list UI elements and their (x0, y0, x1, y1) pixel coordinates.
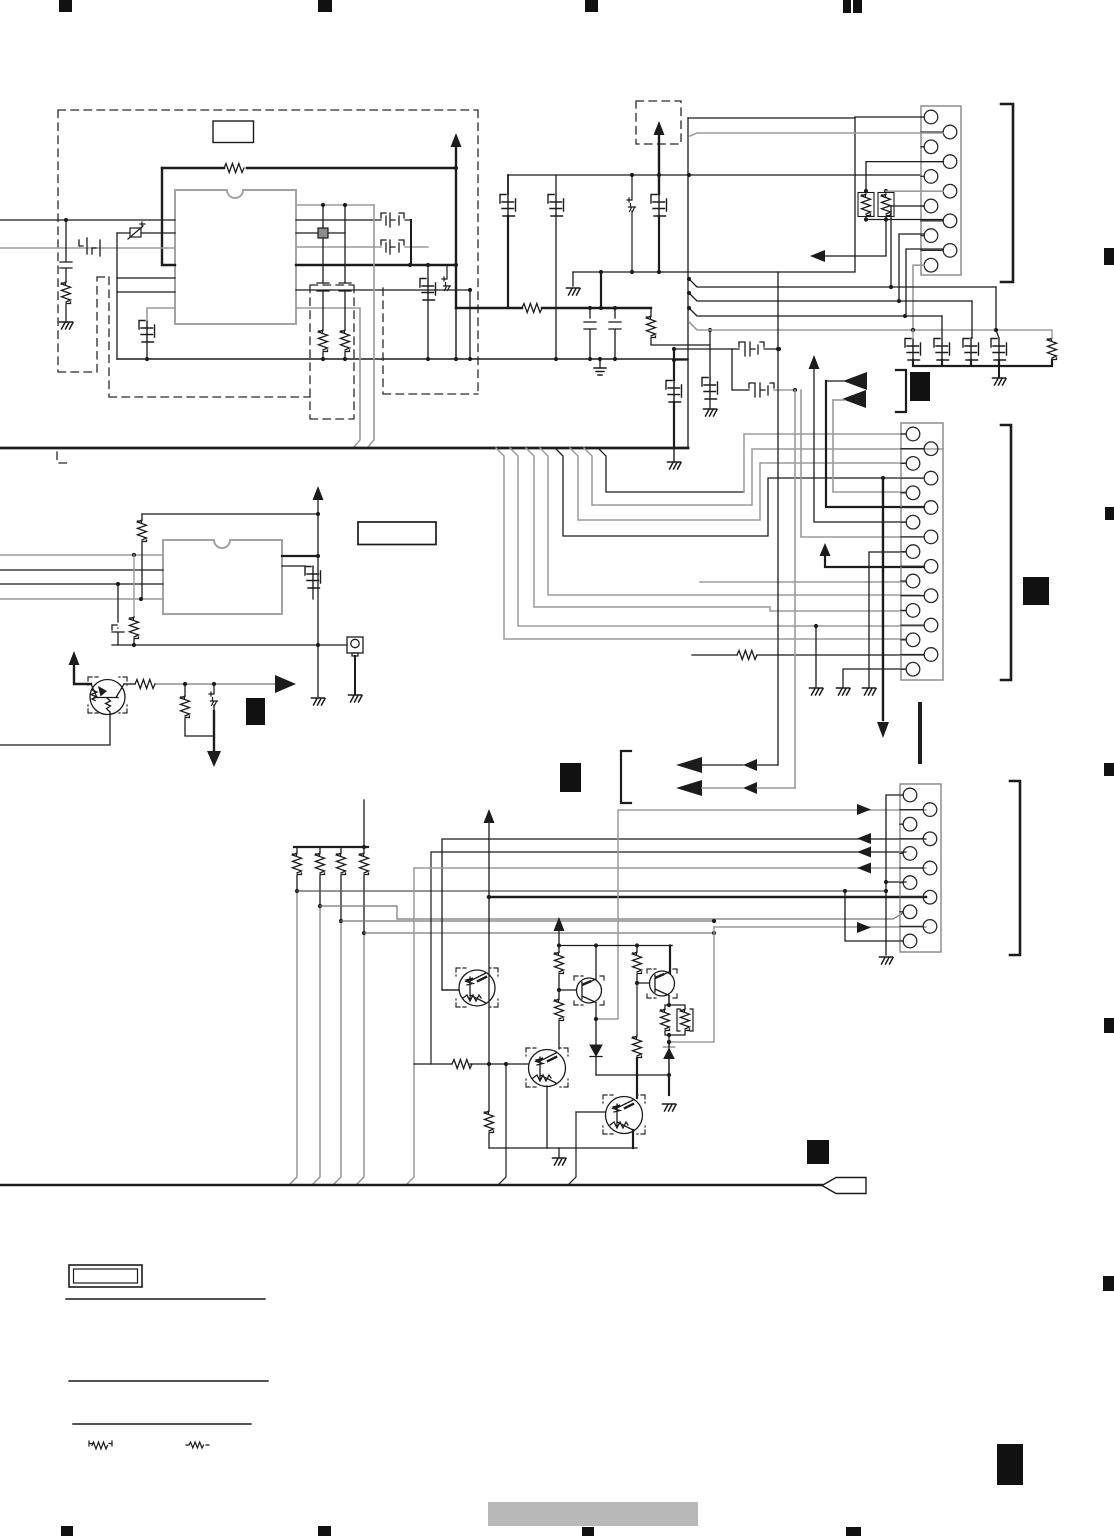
node AR3 u2pin (316, 554, 320, 558)
node rail b (594, 943, 598, 947)
black marker M3 (1023, 577, 1049, 605)
registration mark bottom 4 (846, 1527, 861, 1536)
wire C6 leads (427, 265, 429, 359)
wire net839 (442, 839, 926, 990)
resistor R10 (138, 520, 147, 542)
wire thick drop x883 (882, 478, 884, 720)
connector CN2 pins (901, 427, 938, 676)
wire R18 to Q4 (558, 1021, 560, 1049)
node x883 (881, 476, 885, 480)
ground G5 (668, 462, 682, 469)
wire Q5 collector thick (669, 946, 671, 974)
wire AR4 to Q1 (74, 663, 91, 684)
node net891 branch (843, 889, 847, 893)
wire R21R22 top bar (665, 996, 685, 1009)
arrow down AW5 (207, 751, 221, 767)
wire x674 thick branch (673, 349, 675, 380)
ground G11 (837, 688, 851, 695)
wire main bus1 thick (0, 447, 688, 450)
wire riser x710 (709, 330, 711, 377)
registration mark bottom 1 (61, 1526, 73, 1536)
fan drop 3 (526, 448, 906, 611)
wire C13 to bus (673, 402, 675, 448)
ground G3 (567, 288, 581, 295)
thick branch wire to resistor R5 (456, 307, 651, 309)
wire C19 stub (282, 566, 313, 599)
node rail c (635, 943, 639, 947)
node U2 in3 (116, 582, 120, 586)
wire band line 316 (689, 308, 942, 316)
wire R6 top (650, 308, 652, 316)
vertical x795 gray to arrows (794, 390, 796, 788)
supply arrow AR2 (654, 121, 665, 135)
transistor Q4 (529, 1050, 566, 1087)
capacitor C1 left column (60, 220, 72, 282)
node AVDD c (687, 173, 691, 177)
wire CN1 pin7 (891, 206, 924, 287)
wire CN1 pin11 gray (913, 265, 924, 330)
node y272 c (657, 270, 661, 274)
transistor Q3 (577, 945, 602, 1019)
capacitor C11 (651, 195, 667, 217)
wire cap row bottom thick (913, 360, 1052, 366)
node D2 bottom (667, 1073, 671, 1077)
wire input line A (0, 219, 175, 221)
wire CP2 (631, 175, 633, 272)
node pin5r (408, 263, 412, 267)
wire row gnd stub (558, 1148, 560, 1157)
node RN1 (295, 889, 299, 893)
wire input line B gray (0, 247, 175, 249)
node band287 x689 (687, 277, 691, 281)
wire Q4 collector (636, 946, 638, 953)
capacitor C18 (112, 584, 124, 645)
wire L669 ground leg (843, 669, 906, 687)
wire U1 pin5 (117, 277, 175, 279)
registration mark right 3 (1104, 763, 1114, 776)
node band330 a (911, 328, 915, 332)
wire Q6 base (576, 1111, 605, 1113)
node Q5 base (635, 981, 639, 985)
wire 674 to 688 (674, 359, 688, 361)
wire AR2 stem (658, 133, 660, 194)
node x674 y360 (672, 358, 676, 362)
node C10 rail (554, 357, 558, 361)
wire CN3 gnd vertical (886, 795, 903, 955)
wire thick link 272-308 (600, 272, 602, 308)
wire R17-R18 (558, 974, 560, 999)
wire gray L582 (700, 581, 906, 583)
wire C12 to ground (709, 399, 711, 408)
vertical x778 to arrows (777, 272, 779, 765)
thermistor TH1 (128, 222, 145, 239)
capacitor C3 (139, 321, 155, 343)
wire band line 301 (689, 293, 972, 301)
node C7 top (588, 306, 592, 310)
black marker M4 (560, 763, 581, 792)
fan drop 7 (584, 448, 943, 505)
wire U1 pin 2r (296, 219, 411, 221)
resistor R16 (452, 1060, 472, 1069)
node pin5r c (454, 263, 458, 267)
wire drop x732 (732, 349, 747, 390)
node net933 (712, 931, 716, 935)
wire CN1 pin9 (899, 234, 924, 301)
node pin1 b (343, 203, 347, 207)
capacitor C19 (305, 567, 321, 589)
wire FL4 right gray (774, 389, 795, 391)
black marker M5 (807, 1140, 829, 1164)
node FL3 right (777, 347, 781, 351)
wire U1 pin2 left vertical (162, 168, 175, 265)
wire R9 top (1051, 330, 1053, 338)
fan drop 8 riser gray (744, 434, 906, 492)
wire net933 (364, 932, 714, 934)
legend rule 2 (69, 1380, 268, 1382)
wire Q4 emitter (546, 1086, 548, 1148)
dashed frame Q3 (574, 976, 604, 1005)
crystal X1 (318, 228, 328, 238)
wire U1 pin 4r gray (296, 246, 428, 248)
transistor Q5 (650, 971, 675, 1006)
resistor R11 (130, 617, 139, 639)
resistor R9 (1048, 338, 1057, 360)
resistor R6 (647, 316, 656, 338)
wire Q2 chain vertical (488, 821, 490, 1064)
wire U1 pin 5r thick (296, 264, 456, 266)
supply arrow AR6 (820, 543, 831, 556)
vertical net column 2 (344, 205, 346, 330)
capacitor C13 (666, 381, 682, 403)
wire supply rail y945 (559, 945, 672, 947)
node Rbot b (884, 217, 888, 221)
vertical net X1 column (322, 205, 324, 330)
wire R20 to Q6 thick (636, 1058, 638, 1098)
node AVDD a (630, 173, 634, 177)
resistor R18 (555, 999, 564, 1021)
wire drop C18 (133, 555, 135, 617)
node chain 1064 (487, 1062, 491, 1066)
connector CN2 body (901, 423, 943, 680)
wire R3 to rail (322, 352, 324, 359)
node R7 top (864, 189, 868, 193)
node net921 (712, 919, 716, 923)
arrow small AW10 (743, 782, 757, 794)
node FL4 gray (793, 388, 797, 392)
node band301 x689 (687, 291, 691, 295)
node pin1 a (321, 203, 325, 207)
wire net891 (297, 890, 886, 892)
resistor R22 boxed (677, 1009, 693, 1031)
arrow flag AW3 (842, 390, 866, 408)
wire C3 to U1 pin7 gray (147, 308, 175, 320)
wire U1 pin 7r gray down to bus (296, 308, 360, 448)
dashed box inner small (310, 285, 354, 419)
wire drop x506 (498, 1064, 506, 1185)
legend resistor sample 2 (186, 1442, 209, 1448)
wire R655 with resistor (692, 654, 924, 656)
wire arrow stem lower (455, 308, 457, 359)
wire arrows row1 (702, 764, 778, 766)
connector CN3 pins (900, 788, 937, 948)
registration mark top 4b (853, 0, 862, 13)
IC U2 (163, 540, 282, 614)
wire RN1 stub (296, 847, 298, 891)
dashed box right of IC1 (383, 288, 478, 394)
wire band line 330 gray (689, 322, 1052, 330)
node RN2 (318, 904, 322, 908)
arrow flag AW2 (843, 372, 867, 390)
wire C9 top (507, 175, 509, 194)
wire AR8 stem (558, 929, 560, 952)
legend rule 3 (73, 1423, 251, 1425)
node U2 in4 (139, 597, 143, 601)
node RN3 (339, 919, 343, 923)
polar cap CP2 (627, 198, 636, 212)
supply arrow AR7 (484, 809, 495, 823)
wire gnd stub (572, 272, 574, 286)
resistor R3 (319, 330, 328, 352)
arrow right AW4 (275, 675, 296, 693)
node band316 x689 (687, 306, 691, 310)
arrow flag AW7 (676, 757, 702, 773)
bracket BK5 (896, 370, 906, 412)
registration mark top 4 (843, 0, 851, 13)
capacitor C14 (905, 339, 921, 361)
wire AR5 stem (814, 367, 906, 522)
wire arrows row2 gray (702, 787, 795, 789)
black marker M1 (910, 372, 930, 401)
resistor R12 (135, 680, 155, 689)
node AVDD b (657, 173, 661, 177)
wire C17 top (996, 330, 999, 338)
bracket BK3 (1010, 781, 1020, 955)
registration mark bottom 2 (318, 1526, 331, 1536)
resistor array bar (294, 846, 368, 848)
resistor R20 (633, 1036, 642, 1058)
wire base res row y1064 (414, 1063, 528, 1065)
capacitor C15 (934, 339, 950, 361)
wire Q6 emitter thick (632, 1130, 634, 1148)
wire pullup R10 top (142, 513, 318, 515)
filter FL4 pair (747, 383, 774, 397)
wire CP1 stub (446, 265, 448, 279)
fan drop 6 (570, 448, 906, 520)
legend resistor sample 1 (89, 1441, 112, 1449)
node y272 a (599, 270, 603, 274)
resistor R15 (485, 1111, 494, 1133)
wire U2 out thick (282, 555, 318, 557)
arrow left AW13 (857, 863, 871, 874)
capacitor C6 (420, 279, 436, 301)
node net891 end (884, 889, 888, 893)
wire C16 top (971, 337, 972, 339)
wire U1 right pin1 gray to C column (296, 204, 374, 206)
node C8 top (613, 306, 617, 310)
wire VDD top thick (162, 167, 456, 170)
resistor R8 boxed (878, 193, 894, 217)
wire Q2 base (442, 989, 459, 991)
capacitor C4 plates (317, 283, 329, 291)
capacitor C16 (963, 339, 979, 361)
wire net921 (341, 920, 714, 922)
label box L1 (213, 121, 254, 143)
wire CN1 pin6 gray (886, 190, 943, 192)
wire diode link y1075 (596, 1074, 669, 1076)
black marker M6 (997, 1444, 1023, 1485)
node link bottom (599, 306, 603, 310)
node band301 drop (897, 299, 901, 303)
wire x826 thick (826, 381, 924, 507)
wire AR6 to pin thick (825, 554, 924, 567)
node CN3 gnd a (884, 880, 888, 884)
node R13 top (183, 682, 187, 686)
polar cap CP1 (442, 277, 451, 291)
dashed enclosure box top-left (57, 101, 681, 463)
wire Q1 base to left (0, 714, 110, 745)
node G2 rail (598, 357, 602, 361)
ground G6 (993, 378, 1007, 385)
label box L2 (358, 522, 436, 545)
arrow right AW15 (857, 804, 871, 815)
wire emitter row y1148 (489, 1147, 637, 1149)
wire D2 down thick (668, 1075, 670, 1095)
registration mark right 5 (1103, 1276, 1114, 1291)
fan drop 8 (598, 448, 744, 492)
dashed frame Q1 (88, 677, 127, 713)
wire AW3 leader gray (833, 399, 844, 401)
wire row gnd stub (998, 366, 1000, 377)
wire C11 bottom thick (658, 216, 660, 272)
wire net906 (320, 906, 903, 919)
resistor RN2 (316, 853, 325, 875)
wire arrow stem thick (455, 145, 457, 308)
bracket BK2 (1001, 425, 1011, 680)
arrow small AW8 (743, 759, 757, 771)
dashed frame Q6 (603, 1095, 645, 1134)
wire Q3 base (559, 989, 576, 991)
capacitor C17 (991, 339, 1007, 361)
node C3 rail (145, 357, 149, 361)
wire x637 down (636, 983, 638, 1036)
wire R10 leads (141, 514, 143, 599)
legend box double (69, 1265, 142, 1287)
wire R4 to rail (344, 352, 346, 359)
resistor R4 (341, 330, 350, 352)
node pin6r rail (468, 357, 472, 361)
node mute a (132, 643, 136, 647)
wire corner 996 (995, 287, 997, 330)
wire L882 stub (886, 881, 906, 883)
node x506 (504, 1062, 508, 1066)
wire RN1 drop to bus2 gray (289, 891, 297, 1185)
registration mark right 2 (1105, 507, 1114, 520)
transistor Q1 (90, 680, 125, 716)
resistor R19 (633, 952, 642, 974)
wire C14 top (912, 330, 914, 338)
wire RN3 drop gray (333, 921, 341, 1185)
node band287 drop (889, 285, 893, 289)
supply arrow AR1 (451, 133, 462, 147)
arrow left AW1 (810, 250, 825, 262)
wire L552 ground leg (869, 552, 906, 687)
wire net941 (845, 891, 903, 941)
wire R11 bottom (133, 639, 135, 645)
diode D1 (590, 1045, 602, 1056)
ground G14 (553, 1158, 567, 1165)
wire U1 pin 3r to crystal (296, 232, 345, 234)
wire R6 bottom to riser (651, 338, 710, 345)
capacitor C9 (500, 195, 516, 217)
wire U1 pin6 (117, 291, 175, 293)
resistor R2 left column (62, 282, 71, 304)
connector CN1 pins (921, 110, 957, 272)
node band330 b (994, 328, 998, 332)
wire band line 287 (689, 279, 996, 287)
gray footer box (488, 1502, 698, 1526)
node Q3 emitter gray (594, 1017, 598, 1021)
node C8 rail (613, 357, 617, 361)
black marker M2 (246, 698, 265, 725)
wire resistor bottoms (823, 217, 943, 257)
arrow down AW6 (877, 722, 889, 738)
ground G8 (349, 695, 363, 702)
capacitor C7 (584, 308, 596, 359)
wire R21R22 bottom (665, 1031, 685, 1075)
legend rule 1 (66, 1298, 265, 1300)
wire net898 thick (488, 896, 926, 898)
wire C9 bottom thick (507, 216, 509, 308)
wire net868 gray (406, 868, 926, 1185)
capacitor C2 pair on line B (79, 238, 100, 256)
jack J1 (347, 637, 363, 656)
supply arrow AR4 (69, 651, 80, 665)
filter FL3 pair (732, 342, 764, 356)
node C7 rail (588, 357, 592, 361)
wire RN4 drop gray (356, 933, 364, 1185)
polar cap CP3 (209, 692, 218, 706)
registration mark right 4 (1104, 1018, 1114, 1033)
wire R626 ground leg (815, 626, 817, 687)
node Rbot a (864, 217, 868, 221)
arrow left AW11 (857, 833, 871, 844)
supply arrow AR5 (809, 355, 820, 369)
fan drop 2 (510, 448, 924, 626)
bracket BK4 (621, 751, 631, 803)
registration mark top 1 (59, 0, 72, 12)
ground G1 (60, 322, 74, 329)
node C6 rail (426, 357, 430, 361)
node x778 top (776, 347, 780, 351)
resistor RN3 (337, 853, 346, 875)
wire left bias vertical (116, 233, 118, 359)
wire U2 in3 (0, 583, 163, 585)
wire R13 bottom (185, 718, 214, 736)
fan drop 1 gray (496, 448, 906, 639)
wire filter row y349 (674, 348, 779, 350)
wire C3 to rail (146, 343, 148, 359)
vertical x801 gray (801, 390, 924, 537)
wire CN1 pin10 (906, 249, 943, 316)
wire CN1 pin2 gray (690, 133, 943, 136)
wire net927 gray (714, 926, 926, 928)
wire U2 in1 gray (0, 554, 163, 556)
wire CN1 pin1 (855, 117, 924, 272)
wire mute line y645 (112, 644, 347, 646)
wire R19 to Q5 base (637, 974, 649, 983)
wire J1 down (354, 656, 356, 694)
capacitor C8 (609, 308, 621, 359)
